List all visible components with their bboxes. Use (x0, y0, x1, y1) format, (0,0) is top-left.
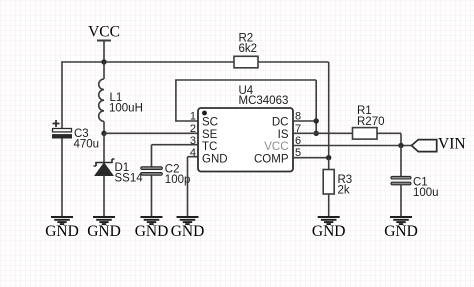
svg-text:SC: SC (202, 117, 218, 129)
svg-text:IS: IS (278, 129, 289, 141)
diode D1 SS14 (94, 133, 144, 217)
svg-text:GND: GND (312, 223, 346, 240)
svg-text:GND: GND (384, 223, 418, 240)
inductor L1 (99, 62, 143, 133)
svg-text:100uH: 100uH (109, 103, 143, 115)
svg-text:3: 3 (190, 135, 196, 147)
wire VIN node down to C1 (400, 146, 402, 177)
svg-text:SS14: SS14 (115, 173, 144, 185)
svg-text:VCC: VCC (264, 141, 288, 153)
wire VCC node to R2 left (62, 61, 234, 63)
ground (U4 pin4) (171, 217, 205, 240)
svg-text:1: 1 (190, 111, 196, 123)
svg-text:R270: R270 (357, 116, 385, 128)
wire TC to C2 (152, 145, 199, 167)
node IS junction (314, 131, 319, 136)
wire IS row to R1 (293, 132, 353, 134)
resistor R1 (353, 105, 385, 139)
wire R1 right to VIN node (377, 133, 401, 145)
svg-text:GND: GND (171, 223, 205, 240)
power VCC (88, 24, 120, 63)
op-amp U1 : IC U4 MC34063 (198, 85, 293, 172)
svg-text:470u: 470u (74, 139, 100, 151)
svg-text:6k2: 6k2 (239, 43, 258, 55)
U4 right pin names (254, 117, 289, 166)
wire SC to DC/IS (top loop) (175, 80, 316, 133)
svg-text:COMP: COMP (254, 153, 289, 165)
wire VCC node down to C3 (61, 61, 63, 128)
svg-text:VCC: VCC (88, 24, 120, 41)
ground (C3) (45, 217, 79, 240)
U4 left pin names (202, 117, 228, 166)
svg-text:100p: 100p (165, 174, 191, 186)
svg-text:DC: DC (272, 117, 289, 129)
port VIN flag (412, 136, 466, 153)
wire DC stub (293, 120, 316, 122)
wire R2 right to drop (258, 61, 329, 63)
capacitor C1 (391, 176, 439, 199)
resistor R3 (323, 158, 352, 197)
svg-text:TC: TC (202, 141, 217, 153)
svg-text:2k: 2k (338, 185, 350, 197)
node DC junction (314, 118, 319, 123)
ground (C2) (135, 217, 169, 240)
svg-text:GND: GND (45, 223, 79, 240)
wire SE row (104, 132, 198, 134)
wire drop from R2 to COMP node (328, 62, 330, 158)
svg-text:4: 4 (190, 147, 196, 159)
svg-text:2: 2 (190, 123, 196, 135)
node COMP junction (326, 155, 331, 160)
node L1/D1/SE (101, 131, 106, 136)
U4 right pin numbers (295, 111, 301, 160)
wire C3 to GND (61, 138, 63, 217)
capacitor C2 (141, 164, 191, 187)
resistor R2 (234, 33, 258, 68)
svg-text:VIN: VIN (438, 136, 466, 153)
svg-text:MC34063: MC34063 (239, 95, 289, 107)
ground (D1) (87, 217, 121, 240)
capacitor C3 (53, 120, 100, 151)
ground (R3) (312, 217, 346, 240)
svg-text:SE: SE (202, 129, 218, 141)
svg-text:GND: GND (202, 153, 228, 165)
wire C2 to GND (151, 176, 153, 218)
wire R3 to GND (328, 194, 330, 217)
svg-text:GND: GND (135, 223, 169, 240)
U4 left pin numbers (190, 111, 196, 160)
svg-text:GND: GND (87, 223, 121, 240)
node VIN junction (398, 143, 403, 148)
node A (VCC junction) (101, 59, 106, 64)
svg-text:100u: 100u (413, 187, 439, 199)
ground (C1) (384, 217, 418, 240)
wire COMP stub (293, 157, 329, 159)
wire IC GND pin4 to GND (188, 157, 199, 217)
wire VCC row (pin6) to VIN (293, 145, 412, 147)
wire C1 to GND (400, 185, 402, 217)
